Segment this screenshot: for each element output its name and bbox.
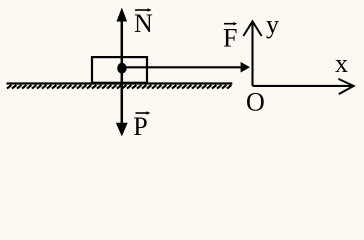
force N arrow shaft (upward) xyxy=(121,20,124,70)
x axis open arrowhead xyxy=(338,79,353,94)
vector bar over F xyxy=(224,23,235,25)
svg-text:O: O xyxy=(246,88,265,117)
y axis open arrowhead xyxy=(243,21,261,36)
ground surface line xyxy=(7,82,233,84)
force P arrow shaft (downward) xyxy=(121,69,124,124)
y axis shaft xyxy=(251,22,253,86)
force N arrowhead xyxy=(117,8,128,22)
svg-text:F: F xyxy=(223,24,237,53)
svg-text:y: y xyxy=(266,10,279,39)
x axis shaft xyxy=(253,85,353,87)
force P arrowhead xyxy=(116,123,128,137)
vector bar over N xyxy=(135,9,149,11)
force F arrow shaft (rightward) xyxy=(122,66,242,68)
force F arrowhead xyxy=(241,62,250,73)
svg-text:N: N xyxy=(134,9,153,38)
ground hatching xyxy=(7,85,231,89)
contact point dot xyxy=(117,63,126,74)
svg-text:x: x xyxy=(335,49,348,78)
vector bar over P xyxy=(136,112,148,114)
block (box on ground) xyxy=(92,57,147,83)
svg-text:P: P xyxy=(133,112,147,141)
